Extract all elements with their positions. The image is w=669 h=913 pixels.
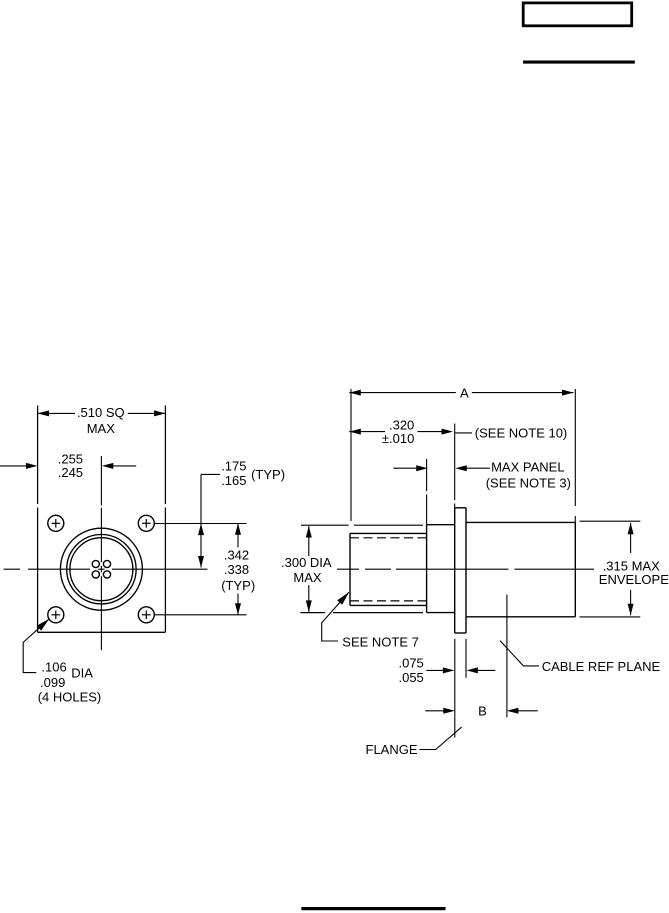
svg-text:(TYP): (TYP) — [221, 578, 255, 593]
svg-text:.245: .245 — [58, 465, 83, 480]
svg-text:.055: .055 — [398, 670, 423, 685]
svg-text:SEE NOTE 7: SEE NOTE 7 — [342, 635, 419, 650]
svg-text:±.010: ±.010 — [382, 431, 414, 446]
svg-text:FLANGE: FLANGE — [366, 742, 418, 757]
svg-text:MAX: MAX — [293, 570, 322, 585]
svg-text:.300 DIA: .300 DIA — [281, 555, 332, 570]
svg-text:A: A — [460, 386, 469, 401]
svg-text:(4 HOLES): (4 HOLES) — [38, 690, 102, 705]
svg-text:ENVELOPE: ENVELOPE — [599, 572, 669, 587]
svg-text:.338: .338 — [224, 562, 249, 577]
svg-text:.175: .175 — [221, 459, 246, 474]
svg-text:.510 SQ: .510 SQ — [77, 405, 125, 420]
svg-text:B: B — [478, 704, 487, 719]
svg-text:.165: .165 — [221, 473, 246, 488]
svg-text:(SEE NOTE 3): (SEE NOTE 3) — [486, 475, 571, 490]
svg-text:MAX: MAX — [87, 421, 116, 436]
svg-text:(SEE NOTE 10): (SEE NOTE 10) — [475, 426, 567, 441]
svg-text:CABLE REF PLANE: CABLE REF PLANE — [542, 659, 661, 674]
svg-text:.099: .099 — [40, 675, 65, 690]
svg-text:DIA: DIA — [71, 666, 93, 681]
svg-text:(TYP): (TYP) — [251, 467, 285, 482]
svg-text:.342: .342 — [224, 547, 249, 562]
svg-text:MAX PANEL: MAX PANEL — [491, 460, 564, 475]
svg-text:.106: .106 — [41, 660, 66, 675]
svg-text:.075: .075 — [398, 656, 423, 671]
